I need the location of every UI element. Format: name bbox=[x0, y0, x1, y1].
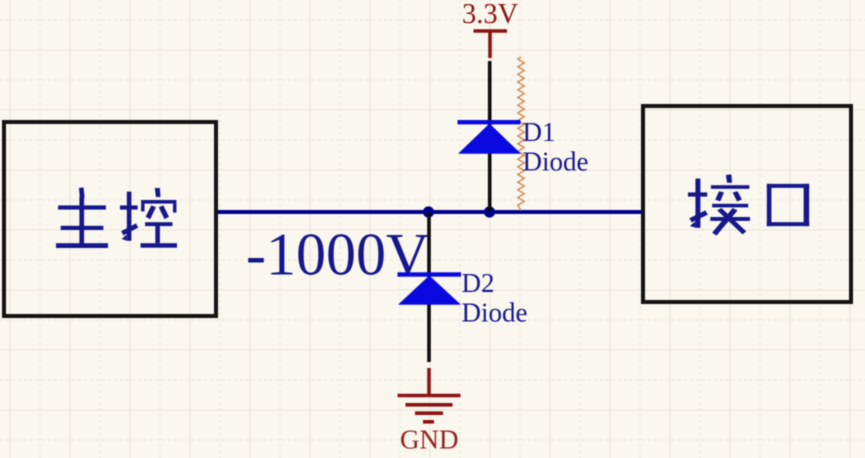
block 主控 (main controller box) bbox=[4, 122, 216, 316]
wire: D1 vertical (black) bbox=[488, 61, 492, 211]
svg-text:-1000V: -1000V bbox=[246, 222, 429, 288]
svg-text:Diode: Diode bbox=[523, 147, 589, 177]
diode D2 bbox=[398, 272, 462, 305]
text 接口 bbox=[688, 174, 809, 235]
wire: horizontal net between boxes bbox=[218, 210, 642, 214]
svg-text:D2: D2 bbox=[462, 268, 495, 298]
svg-text:D1: D1 bbox=[523, 117, 556, 147]
text 主控 bbox=[56, 187, 177, 248]
ground pin (red) bbox=[427, 368, 431, 394]
block 接口 (interface box) bbox=[643, 106, 851, 302]
diode D1 bbox=[458, 120, 522, 154]
no-ERC wavy marker bbox=[518, 57, 524, 211]
svg-text:3.3V: 3.3V bbox=[462, 0, 519, 30]
junction dot at D2 branch bbox=[423, 206, 434, 217]
ground symbol GND bbox=[398, 396, 461, 422]
power port 3.3V bar bbox=[474, 31, 508, 58]
svg-text:GND: GND bbox=[400, 425, 459, 455]
junction dot at D1 branch bbox=[484, 206, 495, 217]
wire: D2 vertical (black) bbox=[427, 212, 431, 362]
svg-text:Diode: Diode bbox=[462, 298, 528, 328]
